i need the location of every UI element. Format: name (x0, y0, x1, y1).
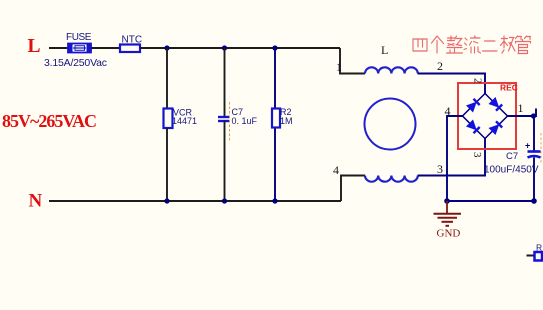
diode D2 top-right (489, 98, 502, 111)
wire top rail corner down (340, 48, 365, 74)
label 85V~265VAC (2, 111, 97, 131)
svg-text:+: + (525, 141, 530, 151)
svg-text:85V~265VAC: 85V~265VAC (2, 111, 97, 131)
wire gnd rail (447, 200, 534, 202)
fuse FUSE (44, 32, 107, 69)
wire bridge pin4 to gnd rail (447, 116, 463, 201)
svg-text:R: R (536, 243, 542, 253)
pin 3 choke (437, 162, 443, 176)
wire L input (49, 47, 68, 49)
node L label (28, 36, 41, 57)
svg-text:3: 3 (471, 152, 483, 158)
svg-text:GND: GND (437, 228, 461, 240)
wire cap bottom (533, 158, 535, 202)
svg-text:3: 3 (437, 162, 443, 176)
junction bottom VCR (164, 198, 169, 203)
svg-text:NTC: NTC (122, 35, 143, 46)
junction bottom C7 (222, 198, 227, 203)
wire bridge pin1 to cap (508, 109, 537, 117)
svg-text:1: 1 (336, 60, 342, 74)
svg-text:C7: C7 (506, 151, 518, 162)
junction top C7 (222, 45, 227, 50)
diode D1 top-left (467, 99, 480, 112)
wire C7 lower (224, 121, 226, 201)
svg-text:3.15A/250Vac: 3.15A/250Vac (44, 57, 107, 69)
svg-text:FUSE: FUSE (66, 32, 92, 43)
wire choke pin3 to bridge bottom (418, 139, 485, 176)
svg-text:1: 1 (518, 101, 524, 115)
choke core circle (365, 99, 416, 150)
svg-text:N: N (29, 191, 43, 212)
svg-text:1M: 1M (280, 116, 293, 126)
diode D3 bottom-left (467, 120, 480, 133)
resistor R partial bottom right (535, 243, 543, 261)
svg-text:L: L (28, 36, 41, 57)
bridge red box REC (458, 83, 518, 150)
wire choke pin2 to bridge (418, 74, 485, 94)
bridge diamond wires (463, 94, 508, 139)
wire R2 vertical (274, 48, 276, 201)
svg-text:L: L (381, 43, 388, 57)
svg-text:REC: REC (500, 83, 518, 93)
junction bottom R2 (272, 198, 277, 203)
resistor R2 1M (272, 107, 293, 128)
svg-text:100uF/450V: 100uF/450V (484, 165, 539, 176)
pin 1 bridge (518, 101, 524, 115)
junction pin1 (531, 113, 536, 118)
capacitor C7 0.1uF (218, 107, 258, 126)
wire cap top (533, 116, 535, 151)
inductor L top winding (365, 67, 418, 73)
svg-text:0. 1uF: 0. 1uF (232, 116, 258, 126)
grid artifact orange cap (540, 133, 542, 163)
capacitor C7 100uF/450V (484, 141, 541, 176)
node N label (29, 191, 43, 212)
wire VCR lower (166, 128, 168, 201)
pin 4 bridge (445, 104, 451, 118)
wire VCR upper (166, 48, 168, 109)
pin 4 choke (333, 163, 339, 177)
wire resistor R partial (527, 255, 536, 257)
wire top rail (140, 47, 340, 49)
pin 2 bridge sideways (472, 78, 484, 84)
ground GND (434, 201, 462, 240)
label CJK four rectifier diodes (413, 36, 531, 54)
varistor VCR 14471 (164, 108, 198, 129)
svg-text:2: 2 (437, 59, 443, 73)
pin 1 choke (336, 60, 342, 74)
grid artifact orange dashed (229, 102, 231, 141)
pin 2 choke (437, 59, 443, 73)
thermistor NTC (120, 35, 142, 53)
junction top R2 (272, 45, 277, 50)
diode D4 bottom-right (489, 121, 502, 134)
wire fuse to NTC (91, 47, 120, 49)
svg-text:4: 4 (333, 163, 339, 177)
junction cap bottom (531, 198, 537, 204)
svg-text:14471: 14471 (172, 116, 197, 126)
wire N rail corner up to choke (341, 176, 365, 202)
label L choke (381, 43, 388, 57)
junction top VCR (164, 45, 169, 50)
inductor L bottom winding (365, 176, 418, 182)
wire C7 upper (224, 48, 226, 117)
junction gnd (444, 198, 450, 204)
wire N rail (49, 200, 341, 202)
pin 3 bridge sideways (471, 152, 483, 158)
svg-text:2: 2 (472, 78, 484, 84)
